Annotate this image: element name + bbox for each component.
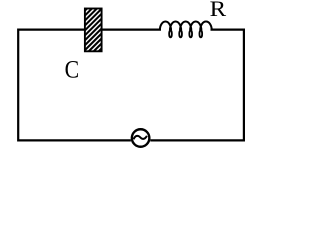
svg-text:C: C	[65, 56, 80, 83]
svg-text:R: R	[210, 0, 227, 21]
